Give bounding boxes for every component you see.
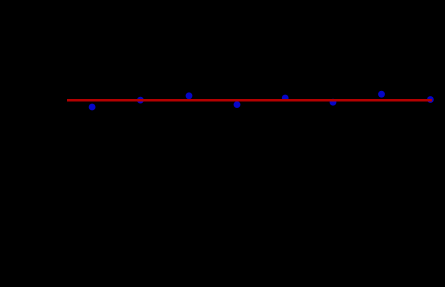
data point 4 xyxy=(234,101,241,108)
data point 1 xyxy=(89,104,96,111)
data point 5 xyxy=(282,95,289,102)
data point 6 xyxy=(330,99,337,106)
data point 7 xyxy=(378,91,385,98)
data point 8 xyxy=(427,96,434,103)
data point 3 xyxy=(186,92,193,99)
fitted regression line xyxy=(67,99,432,102)
data point 2 xyxy=(137,97,144,104)
